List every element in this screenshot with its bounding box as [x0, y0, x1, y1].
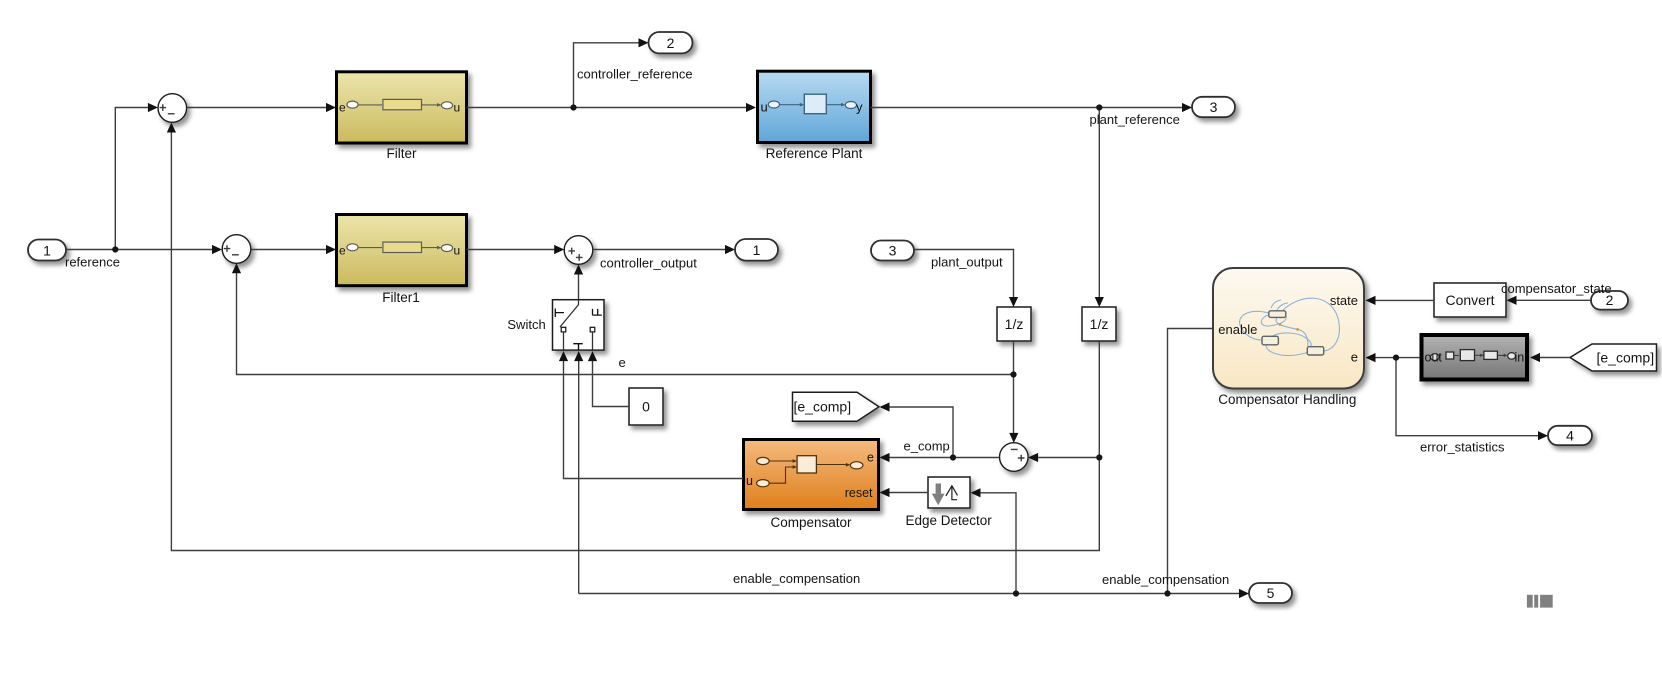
svg-text:1: 1: [43, 242, 51, 258]
sum S4: [1000, 443, 1029, 472]
svg-text:3: 3: [889, 242, 897, 258]
svg-text:plant_output: plant_output: [931, 254, 1003, 269]
wire branch up to outport 2: [574, 43, 647, 108]
svg-text:0: 0: [642, 399, 650, 415]
switch Switch: [553, 300, 605, 350]
svg-text:error_statistics: error_statistics: [1420, 439, 1505, 454]
svg-text:5: 5: [1267, 585, 1275, 601]
svg-text:e: e: [619, 355, 626, 370]
wire S3 to outport 1: [593, 249, 733, 251]
svg-text:1/z: 1/z: [1090, 316, 1109, 332]
from tag [e_comp]: [1570, 344, 1657, 371]
svg-text:Edge Detector: Edge Detector: [905, 513, 992, 528]
wire Filter1 to S3: [467, 249, 563, 251]
svg-text:plant_reference: plant_reference: [1090, 112, 1180, 127]
wire 1/z1 down to S4 top: [1013, 341, 1015, 441]
wire gray subsystem out to chart e: [1367, 357, 1420, 359]
svg-text:enable: enable: [1218, 322, 1257, 337]
svg-text:u: u: [746, 474, 753, 488]
wire Edge Detector to Compensator reset: [881, 492, 928, 494]
svg-text:controller_output: controller_output: [600, 255, 697, 270]
wire constant 0 to Switch input3: [593, 353, 630, 407]
wire inport2 to Convert: [1508, 299, 1591, 301]
wire enable_compensation up to Switch control: [578, 353, 580, 594]
svg-text:reference: reference: [65, 255, 120, 270]
wire reference: inport1 to S2: [66, 249, 220, 251]
sum S3: [564, 236, 593, 265]
svg-text:controller_reference: controller_reference: [577, 67, 693, 82]
svg-text:Reference Plant: Reference Plant: [766, 146, 863, 161]
junction node dots: [112, 246, 118, 252]
svg-text:Filter1: Filter1: [382, 290, 420, 305]
outport 1 "controller_output": [735, 239, 778, 261]
svg-text:out: out: [1425, 351, 1443, 365]
wire inport3 plant_output to 1/z1: [914, 250, 1014, 306]
wire S2 to Filter1: [251, 249, 334, 251]
subsystem Reference Plant: [758, 71, 871, 142]
svg-text:1/z: 1/z: [1005, 316, 1024, 332]
edge detector block: [928, 477, 970, 508]
wire enable_compensation to outport 5: [579, 593, 1247, 595]
svg-text:e_comp: e_comp: [904, 438, 950, 453]
subsystem Filter1: [337, 215, 467, 286]
svg-text:in: in: [1515, 351, 1525, 365]
wire from tag to gray subsystem: [1532, 357, 1571, 359]
svg-text:u: u: [761, 100, 768, 115]
sum S2: [222, 235, 251, 264]
inport 3 "plant_output": [871, 241, 914, 261]
subsystem Filter: [337, 72, 467, 143]
svg-text:1: 1: [753, 242, 761, 258]
wire Filter to Reference Plant: [467, 107, 755, 109]
wire Reference Plant to outport 3: [871, 107, 1191, 109]
sum S1: [158, 94, 187, 123]
outport 5 "enable_compensation": [1249, 583, 1292, 603]
svg-text:u: u: [454, 101, 461, 115]
svg-text:2: 2: [667, 35, 675, 51]
svg-text:e: e: [339, 243, 346, 257]
wire 1/z2 down, feedback to S1: [171, 125, 1099, 551]
svg-text:4: 4: [1566, 428, 1574, 444]
chart Compensator Handling: [1213, 268, 1364, 389]
svg-text:[e_comp]: [e_comp]: [1597, 349, 1655, 365]
wire Convert to chart state: [1367, 299, 1434, 301]
subsystem Compensator: [744, 440, 879, 510]
inport 1 "reference": [28, 240, 66, 261]
inport 2 "compensator_state": [1591, 291, 1628, 310]
wire e feedback to S2 bottom: [237, 265, 1014, 374]
svg-text:Convert: Convert: [1445, 292, 1494, 308]
outport 3 "plant_reference": [1192, 97, 1235, 117]
wire S4 out to Compensator e: [881, 457, 1000, 459]
subsystem (mirrored, gray) error statistics: [1422, 335, 1528, 380]
svg-text:compensator_state: compensator_state: [1501, 281, 1612, 296]
wire reference branch up to S1: [115, 108, 156, 250]
wire branch down to outport 4: [1396, 358, 1546, 436]
data type conversion Convert: [1434, 283, 1506, 317]
svg-text:[e_comp]: [e_comp]: [794, 398, 852, 414]
wire plant_reference down to 1/z: [1098, 108, 1100, 306]
svg-text:e: e: [867, 450, 874, 464]
wire Switch output to S3 bottom: [578, 266, 580, 299]
wire enable_compensation up to Edge Detector: [972, 493, 1016, 594]
svg-text:y: y: [856, 100, 863, 115]
svg-text:e: e: [1351, 350, 1358, 365]
unit delay 1/z (plant_output): [997, 307, 1031, 341]
constant 0: [629, 388, 663, 425]
unit delay 1/z (plant_reference): [1082, 307, 1116, 341]
svg-text:3: 3: [1210, 99, 1218, 115]
arrowheads: [212, 245, 222, 254]
svg-text:reset: reset: [845, 486, 873, 500]
wire branch up to goto [e_comp]: [881, 407, 953, 458]
svg-text:Compensator: Compensator: [770, 515, 852, 530]
wire S1 to Filter: [187, 107, 334, 109]
outport 4 "error_statistics": [1548, 426, 1592, 445]
badge bars bottom-right: [1527, 595, 1553, 608]
wire junction to S4 right input: [1030, 457, 1099, 459]
svg-text:enable_compensation: enable_compensation: [733, 571, 860, 586]
svg-text:state: state: [1330, 293, 1358, 308]
svg-text:Compensator Handling: Compensator Handling: [1218, 392, 1356, 407]
svg-text:e: e: [339, 101, 346, 115]
svg-text:u: u: [454, 243, 461, 257]
outport 2 "controller_reference": [649, 32, 693, 53]
svg-text:Switch: Switch: [507, 317, 545, 332]
svg-text:Filter: Filter: [387, 146, 418, 161]
goto tag [e_comp]: [793, 392, 880, 421]
wire Compensator u to Switch input1: [564, 353, 744, 479]
svg-text:enable_compensation: enable_compensation: [1102, 572, 1229, 587]
wire chart enable output: [1168, 329, 1214, 594]
